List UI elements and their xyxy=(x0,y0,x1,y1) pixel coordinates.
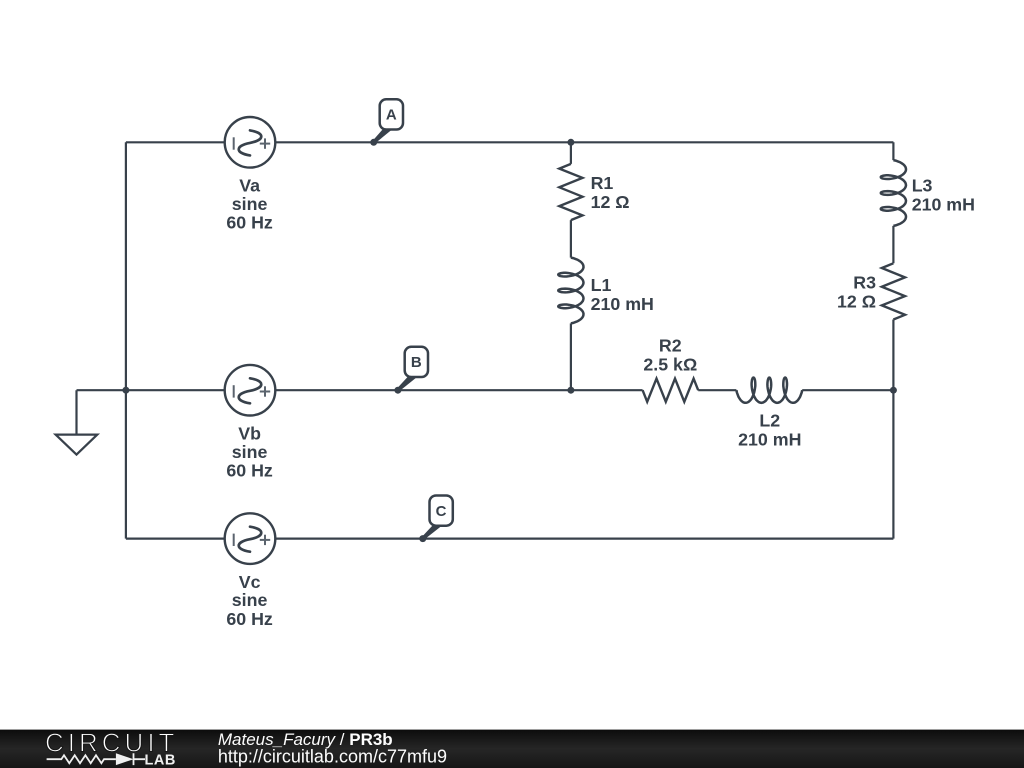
svg-text:Vc: Vc xyxy=(239,572,261,592)
svg-text:L1: L1 xyxy=(591,275,612,295)
svg-text:sine: sine xyxy=(232,194,268,214)
svg-text:12 Ω: 12 Ω xyxy=(591,192,630,212)
svg-text:A: A xyxy=(386,107,397,124)
svg-text:B: B xyxy=(411,354,422,371)
svg-text:Va: Va xyxy=(239,176,260,196)
svg-text:sine: sine xyxy=(232,442,268,462)
svg-text:2.5 kΩ: 2.5 kΩ xyxy=(643,354,697,374)
svg-text:210 mH: 210 mH xyxy=(912,194,975,214)
svg-text:LAB: LAB xyxy=(145,753,176,768)
svg-text:210 mH: 210 mH xyxy=(738,429,801,449)
svg-text:12 Ω: 12 Ω xyxy=(837,292,876,312)
svg-text:210 mH: 210 mH xyxy=(591,294,654,314)
svg-text:R3: R3 xyxy=(853,273,876,293)
svg-text:R2: R2 xyxy=(659,336,682,356)
svg-text:sine: sine xyxy=(232,590,268,610)
svg-text:http://circuitlab.com/c77mfu9: http://circuitlab.com/c77mfu9 xyxy=(218,747,447,767)
svg-text:L2: L2 xyxy=(759,411,780,431)
svg-text:60 Hz: 60 Hz xyxy=(226,460,273,480)
svg-text:60 Hz: 60 Hz xyxy=(226,609,273,629)
svg-text:60 Hz: 60 Hz xyxy=(226,213,273,233)
svg-text:C: C xyxy=(436,503,447,520)
svg-text:Vb: Vb xyxy=(238,424,261,444)
svg-text:R1: R1 xyxy=(591,173,614,193)
svg-text:L3: L3 xyxy=(912,176,933,196)
